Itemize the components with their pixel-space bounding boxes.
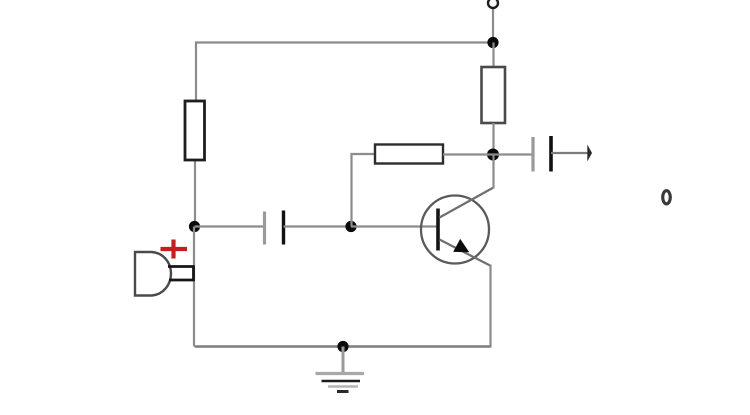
wire collector node to C2: [493, 153, 532, 155]
transistor Q1 emitter stroke: [440, 240, 491, 266]
wire supply stub to terminal: [492, 8, 494, 43]
node input junction: [189, 221, 200, 232]
wire C2 to output: [551, 152, 589, 154]
wire top rail: [196, 43, 493, 102]
wire emitter vertical: [489, 265, 491, 348]
wire feedback left leg: [352, 154, 376, 227]
transistor Q1 emitter arrow: [453, 239, 469, 252]
capacitor C2: [533, 136, 551, 172]
wire C1 to base node: [284, 225, 352, 227]
ground stem: [342, 347, 345, 374]
resistor R2: [482, 67, 506, 123]
output arrow tick: [587, 145, 592, 162]
node ground junction: [337, 341, 348, 352]
transistor Q1 body: [421, 196, 489, 264]
node base junction: [345, 221, 356, 232]
microphone MIC body: [135, 252, 171, 296]
wire R2 top: [492, 43, 494, 68]
wire left vertical R1 bottom: [194, 160, 196, 227]
polarity plus label: [161, 240, 188, 259]
ground bars: [316, 374, 365, 392]
wire bottom rail: [195, 345, 491, 347]
node supply junction: [487, 37, 498, 48]
transistor Q1 collector stroke: [440, 188, 494, 218]
resistor R1: [185, 101, 205, 160]
capacitor C1: [265, 211, 284, 245]
wire collector vertical: [492, 155, 494, 189]
wire input node to C1: [195, 225, 265, 227]
node collector junction: [487, 149, 499, 161]
wire R3 right to collector node: [443, 153, 493, 155]
microphone terminals: [168, 266, 195, 282]
wire base node to transistor base: [351, 225, 437, 227]
wire R2 bottom to collector node: [492, 123, 494, 155]
terminal (supply): [488, 0, 498, 8]
transistor Q1 base bar: [436, 209, 440, 251]
resistor R3: [375, 145, 443, 164]
stray ring mark: [663, 191, 671, 204]
wire mic column: [193, 227, 195, 347]
